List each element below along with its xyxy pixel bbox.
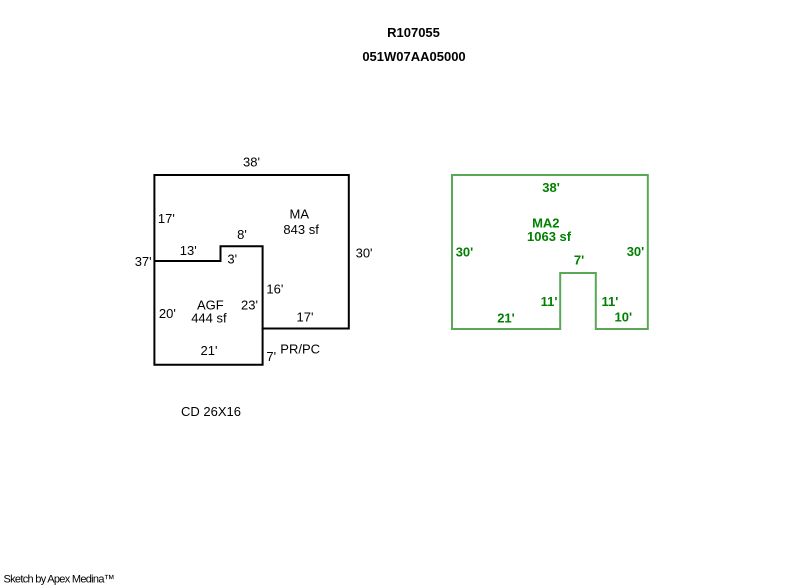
svg-text:17': 17' (158, 211, 175, 226)
left sketch interior wall (AGF/MA division with 13',3',8' jog and 16'/23' wall) (154, 246, 262, 329)
svg-text:8': 8' (237, 227, 247, 242)
svg-text:Sketch by Apex Medina™: Sketch by Apex Medina™ (4, 574, 115, 586)
svg-text:051W07AA05000: 051W07AA05000 (362, 49, 465, 64)
svg-text:R107055: R107055 (387, 25, 440, 40)
svg-text:30': 30' (356, 245, 373, 260)
svg-text:16': 16' (266, 282, 283, 297)
svg-text:10': 10' (615, 310, 633, 325)
svg-text:21': 21' (497, 310, 515, 325)
svg-text:38': 38' (243, 155, 260, 170)
svg-text:CD 26X16: CD 26X16 (181, 404, 241, 419)
svg-text:7': 7' (574, 253, 584, 268)
svg-text:20': 20' (159, 306, 176, 321)
right sketch outer wall (MA2 outline with bottom notch) (452, 175, 648, 329)
svg-text:21': 21' (201, 343, 218, 358)
svg-text:30': 30' (627, 244, 645, 259)
svg-text:13': 13' (180, 243, 197, 258)
svg-text:11': 11' (541, 294, 558, 309)
svg-text:PR/PC: PR/PC (280, 342, 320, 357)
svg-text:3': 3' (227, 251, 237, 266)
svg-text:843 sf: 843 sf (283, 222, 319, 237)
svg-text:17': 17' (297, 309, 314, 324)
svg-text:1063 sf: 1063 sf (527, 229, 572, 244)
svg-text:444 sf: 444 sf (191, 310, 227, 325)
svg-text:38': 38' (542, 180, 560, 195)
svg-text:30': 30' (456, 244, 474, 259)
svg-text:7': 7' (266, 349, 276, 364)
svg-text:11': 11' (602, 294, 619, 309)
svg-text:37': 37' (135, 254, 152, 269)
svg-text:MA: MA (290, 206, 310, 221)
svg-text:23': 23' (241, 298, 258, 313)
left sketch outer wall (MA/AGF outline) (154, 175, 348, 365)
